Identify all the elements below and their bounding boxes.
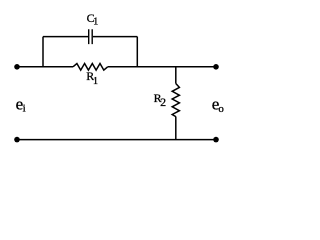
label R1 — [86, 69, 98, 87]
terminal dot output bottom — [213, 137, 219, 143]
svg-text:1: 1 — [93, 76, 98, 87]
wire main right segment — [108, 66, 216, 68]
label C1 — [87, 11, 99, 28]
svg-text:o: o — [218, 103, 224, 115]
svg-text:i: i — [23, 102, 26, 114]
terminal dot input top — [14, 64, 20, 70]
wire R2 upper lead — [175, 67, 177, 84]
resistor R1 — [73, 64, 108, 71]
capacitor C1 — [89, 29, 93, 44]
svg-text:2: 2 — [160, 95, 166, 109]
terminal dot output top — [213, 64, 219, 70]
resistor R2 — [172, 84, 179, 117]
wire R2 lower lead — [175, 117, 177, 140]
wire parallel-box right vertical — [136, 37, 138, 67]
wire bottom — [17, 139, 216, 141]
wire capacitor top left — [43, 36, 88, 38]
label e_i — [16, 94, 26, 114]
terminal dot input bottom — [14, 137, 20, 143]
label e_o — [212, 94, 225, 114]
label R2 — [154, 91, 167, 109]
wire capacitor top right — [93, 36, 137, 38]
svg-text:1: 1 — [93, 17, 98, 28]
wire parallel-box left vertical — [42, 37, 44, 67]
wire main left segment — [17, 66, 73, 68]
